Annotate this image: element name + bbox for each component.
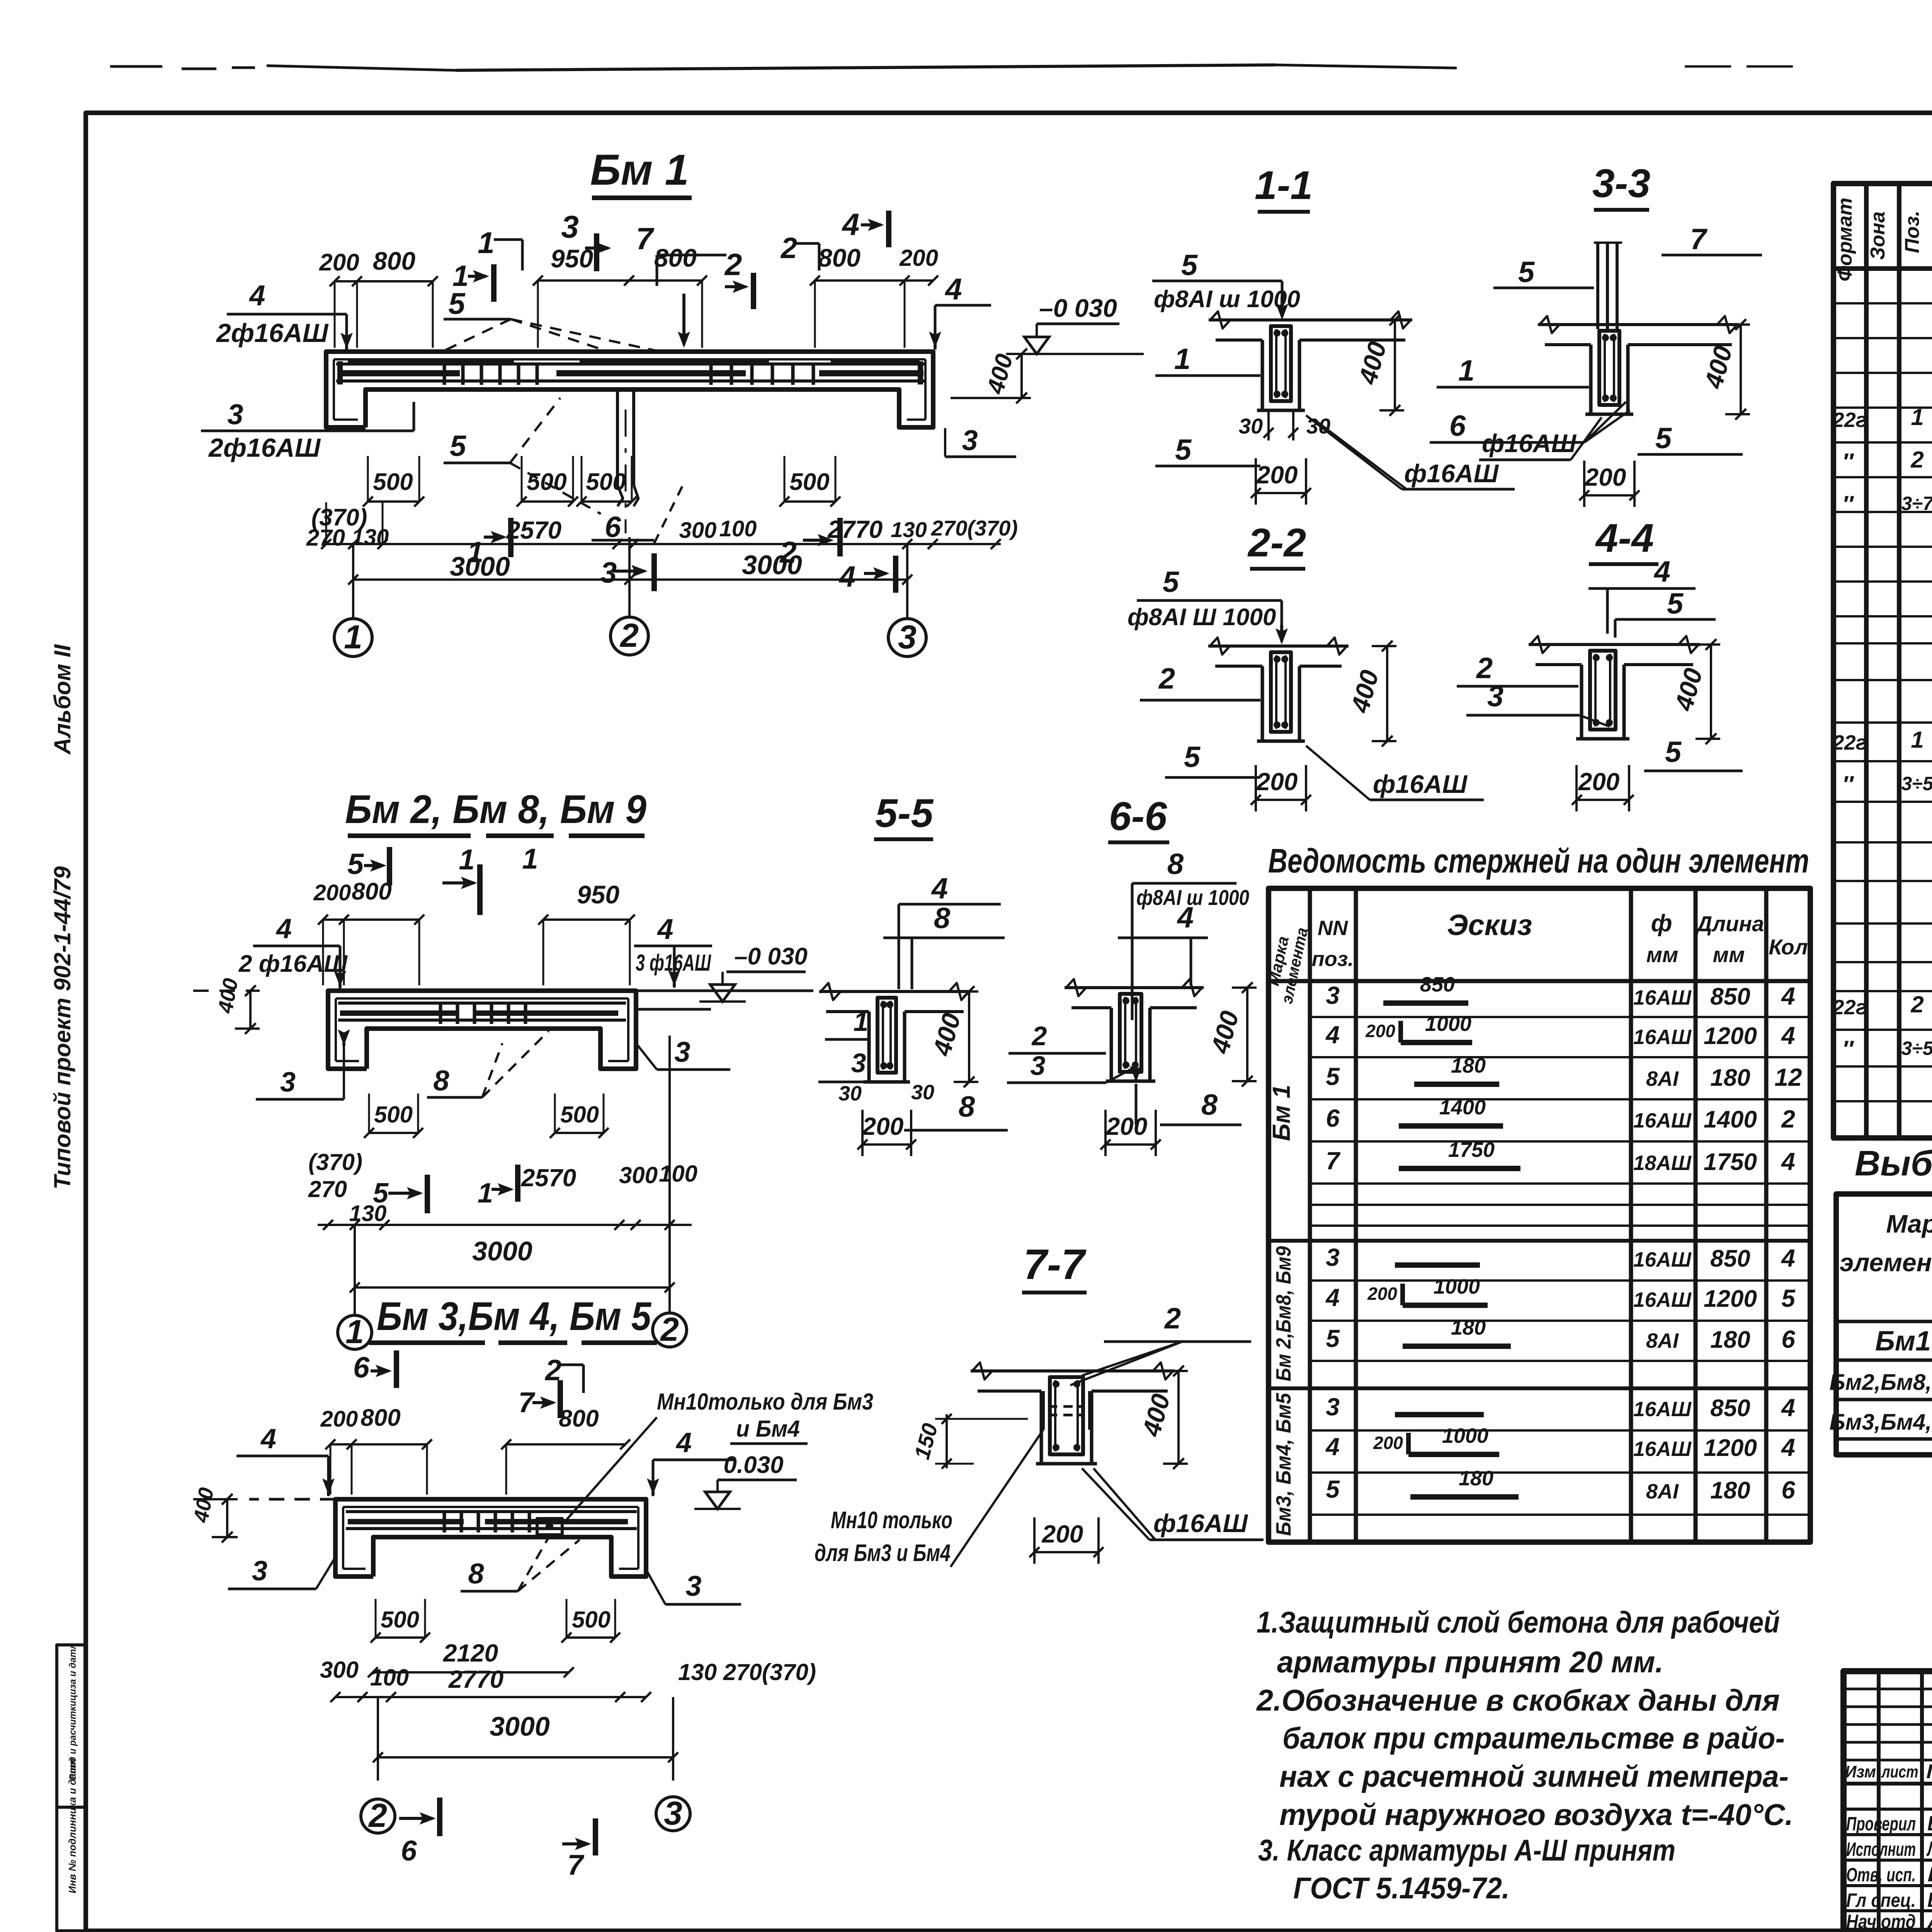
svg-text:Бм 1: Бм 1 [590, 146, 689, 194]
beam Бм3 outline [335, 1499, 646, 1577]
svg-text:2770: 2770 [827, 515, 883, 543]
svg-text:2-2: 2-2 [1247, 520, 1306, 565]
svg-text:1000: 1000 [1442, 1424, 1488, 1447]
svg-text:3: 3 [1326, 981, 1340, 1009]
svg-text:Проверил: Проверил [1846, 1813, 1916, 1835]
section 7-7 MH10 plate dashes [1048, 1405, 1085, 1408]
svg-text:3: 3 [561, 209, 579, 245]
svg-text:500: 500 [586, 469, 626, 495]
svg-text:3: 3 [280, 1067, 296, 1098]
svg-text:4: 4 [1781, 1394, 1795, 1422]
beam Бм2 outline [328, 991, 636, 1069]
svg-text:200: 200 [899, 245, 938, 271]
svg-text:200: 200 [862, 1112, 904, 1140]
svg-text:500: 500 [560, 1102, 599, 1128]
svg-text:4: 4 [931, 872, 948, 905]
svg-text:30: 30 [1239, 414, 1263, 438]
svg-text:Длина: Длина [1695, 912, 1764, 936]
svg-text:Альбом II: Альбом II [49, 644, 75, 755]
spec table row lines [1833, 302, 1932, 304]
svg-text:Бм 1: Бм 1 [1267, 1085, 1295, 1141]
svg-text:4: 4 [1325, 1433, 1340, 1461]
svg-text:7: 7 [567, 1849, 585, 1881]
vedomost header texts [1269, 979, 1810, 983]
svg-text:арматуры принят 20 мм.: арматуры принят 20 мм. [1277, 1645, 1663, 1679]
svg-text:Зона: Зона [1867, 211, 1889, 260]
section 7-7 dim 200 [1034, 1551, 1099, 1553]
svg-text:ф16АШ: ф16АШ [1373, 770, 1468, 798]
svg-text:Бм 3,Бм 4, Бм 5: Бм 3,Бм 4, Бм 5 [377, 1294, 652, 1339]
title block header row Изм/лист/№докум/Подпись/Дата [1844, 1782, 1932, 1786]
svg-text:30: 30 [838, 1082, 862, 1105]
svg-text:4: 4 [1781, 1244, 1795, 1272]
svg-text:3: 3 [252, 1556, 267, 1587]
svg-text:850: 850 [1710, 1245, 1750, 1272]
svg-text:850: 850 [1710, 983, 1750, 1010]
svg-text:100: 100 [370, 1665, 409, 1690]
svg-text:Бродская: Бродская [1927, 1812, 1932, 1835]
svg-text:ф16АШ: ф16АШ [1153, 1509, 1248, 1537]
svg-text:5: 5 [1181, 249, 1198, 282]
vedomost column lines [1308, 888, 1312, 1542]
svg-text:5: 5 [1326, 1325, 1340, 1352]
beam Бм2 lower dim line [318, 1224, 692, 1226]
svg-text:8АІ: 8АІ [1646, 1480, 1679, 1503]
svg-text:1200: 1200 [1704, 1435, 1757, 1461]
svg-text:2: 2 [619, 617, 639, 654]
svg-text:1750: 1750 [1704, 1149, 1757, 1175]
svg-text:4: 4 [1781, 1022, 1795, 1049]
svg-text:1: 1 [1911, 727, 1923, 753]
svg-text:3: 3 [1031, 1051, 1046, 1081]
svg-text:950: 950 [577, 880, 619, 909]
svg-text:Исполнит: Исполнит [1846, 1838, 1916, 1860]
svg-text:200: 200 [1106, 1112, 1148, 1140]
svg-text:16АШ: 16АШ [1633, 1398, 1692, 1421]
svg-text:Эскиз: Эскиз [1447, 909, 1532, 942]
beam Бм1 center support at grid 2 [616, 389, 619, 485]
svg-text:–0 030: –0 030 [734, 943, 808, 970]
section 7-7 drawing [971, 1369, 1175, 1372]
svg-text:Отв. исп.: Отв. исп. [1846, 1864, 1916, 1886]
svg-text:элемента: элемента [1840, 1248, 1932, 1277]
beam Бм1 lower dim line [326, 543, 1001, 545]
svg-text:Изм: Изм [1845, 1762, 1876, 1781]
svg-text:5: 5 [347, 848, 364, 881]
svg-text:8АІ: 8АІ [1646, 1067, 1679, 1090]
title block outer frame [1844, 1671, 1932, 1931]
svg-text:16АШ: 16АШ [1633, 1109, 1692, 1132]
svg-text:поз.: поз. [1312, 947, 1354, 971]
svg-text:1200: 1200 [1704, 1286, 1757, 1312]
title block left thin rows [1844, 1688, 1932, 1690]
svg-text:5-5: 5-5 [875, 791, 934, 836]
title block left columns [1877, 1671, 1881, 1931]
svg-text:3: 3 [664, 1795, 682, 1832]
beam Бм2 right slab extension line [636, 990, 813, 992]
svg-text:4: 4 [248, 279, 265, 311]
svg-text:18АШ: 18АШ [1633, 1151, 1692, 1175]
svg-text:3: 3 [1326, 1393, 1340, 1421]
vyborka table outer frame [1836, 1194, 1932, 1455]
svg-text:4: 4 [1781, 982, 1795, 1010]
svg-text:3: 3 [227, 398, 243, 430]
svg-text:16АШ: 16АШ [1633, 1248, 1692, 1271]
svg-text:270(370): 270(370) [931, 516, 1018, 540]
svg-text:ф: ф [1651, 910, 1672, 937]
svg-text:1400: 1400 [1439, 1096, 1486, 1119]
beam Бм3 left slab extension [249, 1498, 335, 1501]
svg-text:2770: 2770 [448, 1665, 503, 1693]
svg-text:6: 6 [353, 1351, 370, 1384]
svg-text:Гл спец.: Гл спец. [1846, 1889, 1916, 1911]
svg-text:балок при страительстве в р: балок при страительстве в райо- [1282, 1721, 1785, 1755]
section 3-3 dim 400 [1740, 325, 1742, 414]
svg-text:1000: 1000 [1434, 1275, 1480, 1298]
svg-text:1-1: 1-1 [1255, 163, 1313, 208]
svg-text:Бм2,Бм8,Бм9: Бм2,Бм8,Бм9 [1830, 1370, 1932, 1395]
svg-text:8АІ: 8АІ [1646, 1329, 1679, 1352]
svg-text:4: 4 [1325, 1021, 1340, 1049]
svg-text:3000: 3000 [490, 1711, 550, 1742]
svg-text:Рипд и расчиткициза и датл: Рипд и расчиткициза и датл [68, 1643, 78, 1780]
svg-text:ф16АШ: ф16АШ [1404, 459, 1499, 488]
svg-text:200: 200 [313, 880, 351, 905]
svg-text:1400: 1400 [1704, 1106, 1757, 1133]
svg-text:нах с расчетной зимней тем: нах с расчетной зимней темпера- [1279, 1759, 1789, 1793]
beam Бм1 dim 400 right [1020, 354, 1023, 398]
svg-text:5: 5 [1781, 1284, 1796, 1312]
svg-text:2570: 2570 [506, 516, 561, 544]
svg-text:200: 200 [1367, 1284, 1397, 1304]
svg-text:1: 1 [1458, 354, 1475, 387]
svg-text:8: 8 [959, 1090, 975, 1123]
svg-text:200: 200 [319, 249, 359, 276]
svg-text:″: ″ [1842, 1036, 1854, 1062]
svg-text:3: 3 [898, 619, 917, 656]
svg-text:6: 6 [1326, 1104, 1340, 1132]
svg-text:22г: 22г [1832, 408, 1867, 432]
svg-text:200: 200 [320, 1406, 358, 1432]
section 2-2 dim 200 [1256, 799, 1306, 801]
svg-text:5: 5 [1163, 566, 1180, 599]
spec table header row line [1833, 266, 1932, 271]
beam Бм1 left end hook [337, 361, 343, 384]
svg-text:2ф16АШ: 2ф16АШ [216, 318, 329, 348]
beam Бм3 grid lines and circles [377, 1697, 379, 1781]
svg-text:3: 3 [851, 1048, 866, 1078]
svg-text:4: 4 [838, 560, 855, 593]
svg-text:2ф16АШ: 2ф16АШ [208, 433, 321, 463]
svg-text:300: 300 [619, 1162, 658, 1188]
section 4-4 drawing [1529, 643, 1700, 646]
svg-text:Выборка стали на один элеме: Выборка стали на один элемент, кг. [1855, 1144, 1932, 1183]
section 2-2 dim 400 [1386, 646, 1388, 741]
svg-text:6: 6 [401, 1835, 417, 1867]
section 6-6 dim 200 [1105, 1143, 1156, 1146]
svg-text:3000: 3000 [472, 1236, 532, 1266]
svg-text:1: 1 [345, 1313, 364, 1350]
section 7-7 dim 400 [1177, 1371, 1180, 1464]
svg-text:Nºдокум: Nºдокум [1926, 1760, 1932, 1783]
svg-text:1: 1 [478, 1178, 493, 1209]
svg-text:2570: 2570 [521, 1164, 576, 1192]
svg-text:4: 4 [1781, 1434, 1795, 1461]
section 3-3 drawing [1538, 323, 1739, 326]
svg-text:4: 4 [260, 1423, 276, 1454]
svg-text:200: 200 [1585, 463, 1626, 491]
spec table outer frame [1833, 184, 1932, 1138]
svg-text:800: 800 [559, 1405, 599, 1432]
title block signature rows [1844, 1808, 1932, 1811]
svg-text:3: 3 [1326, 1243, 1340, 1271]
svg-text:180: 180 [1710, 1327, 1750, 1353]
svg-text:2: 2 [660, 1311, 679, 1348]
svg-text:Власенко: Власенко [1927, 1888, 1932, 1912]
svg-text:3. Класс арматуры А-Ш принят: 3. Класс арматуры А-Ш принят [1258, 1833, 1675, 1867]
vyborka data rows [1836, 1320, 1932, 1323]
svg-text:16АШ: 16АШ [1633, 986, 1692, 1009]
svg-text:Формат: Формат [1834, 197, 1856, 281]
svg-text:850: 850 [1710, 1395, 1750, 1422]
section 6-6 drawing [1065, 986, 1204, 989]
svg-text:6-6: 6-6 [1109, 794, 1167, 839]
svg-text:3÷5: 3÷5 [1901, 773, 1932, 794]
svg-text:1: 1 [459, 844, 474, 876]
svg-text:4: 4 [1177, 901, 1194, 934]
svg-text:мм: мм [1713, 942, 1745, 967]
svg-text:Шкляр: Шкляр [1927, 1863, 1932, 1886]
vedomost group divider Бм1/Бм2 [1269, 1239, 1810, 1243]
section 5-5 dim 400 [968, 992, 970, 1082]
section 4-4 dim 200 [1577, 799, 1629, 801]
svg-text:2: 2 [780, 232, 797, 265]
svg-text:Мн10только для Бм3: Мн10только для Бм3 [657, 1389, 873, 1415]
svg-text:ГОСТ 5.1459-72.: ГОСТ 5.1459-72. [1293, 1871, 1510, 1905]
svg-text:5: 5 [1175, 434, 1192, 466]
svg-text:8: 8 [433, 1065, 449, 1097]
svg-text:3: 3 [685, 1570, 701, 1602]
svg-text:Нач отд: Нач отд [1846, 1911, 1916, 1932]
svg-text:22г: 22г [1832, 731, 1867, 754]
svg-text:3000: 3000 [450, 551, 510, 582]
svg-text:1: 1 [1911, 404, 1923, 430]
svg-text:2: 2 [724, 247, 742, 282]
svg-text:5: 5 [1326, 1063, 1340, 1090]
svg-text:500: 500 [373, 469, 413, 495]
svg-text:1: 1 [522, 843, 538, 875]
svg-text:7: 7 [1326, 1147, 1341, 1175]
svg-text:1: 1 [854, 1007, 869, 1037]
svg-text:2: 2 [1164, 1302, 1181, 1335]
vedomost row lines [1310, 1016, 1810, 1018]
svg-text:3: 3 [962, 424, 978, 456]
section 5-5 drawing [819, 990, 971, 993]
spec table column lines [1864, 184, 1869, 1138]
svg-text:16АШ: 16АШ [1633, 1288, 1692, 1311]
svg-text:Поз.: Поз. [1901, 211, 1923, 253]
svg-text:800: 800 [361, 1405, 400, 1431]
section 7-7 dim 150 [946, 1414, 948, 1468]
svg-text:180: 180 [1451, 1316, 1486, 1339]
svg-text:12: 12 [1774, 1063, 1802, 1091]
svg-text:800: 800 [352, 878, 391, 905]
svg-text:200: 200 [1256, 461, 1298, 489]
section 5-5 dim 200 [862, 1143, 911, 1146]
svg-text:5: 5 [450, 430, 467, 463]
svg-text:Арсенов: Арсенов [1927, 1910, 1932, 1932]
svg-text:Бм1: Бм1 [1875, 1326, 1931, 1357]
svg-text:4: 4 [944, 272, 962, 306]
svg-text:22г: 22г [1832, 996, 1867, 1019]
svg-text:8: 8 [1201, 1088, 1218, 1121]
beam Бм1 grid lines and circles [352, 544, 354, 618]
svg-text:180: 180 [1451, 1054, 1486, 1077]
svg-text:3: 3 [674, 1036, 690, 1068]
beam Бм2 grid lines and circles [354, 1225, 356, 1315]
svg-text:850: 850 [1420, 973, 1455, 996]
svg-text:0.030: 0.030 [723, 1452, 783, 1478]
svg-text:130 270(370): 130 270(370) [678, 1659, 816, 1685]
beam Бм3 МН10 plate in elevation [537, 1519, 562, 1535]
svg-text:2: 2 [1910, 447, 1923, 473]
svg-text:200: 200 [1256, 768, 1298, 796]
section 3-3 dim 200 [1584, 494, 1634, 497]
svg-text:3÷7: 3÷7 [1901, 493, 1932, 514]
svg-text:8: 8 [1167, 848, 1184, 881]
svg-text:4: 4 [276, 913, 292, 944]
svg-text:3-3: 3-3 [1592, 161, 1650, 206]
vedomost group divider Бм2/Бм3 [1269, 1386, 1810, 1390]
svg-text:100: 100 [719, 516, 757, 541]
svg-text:Типовой проект 902-1-44/79: Типовой проект 902-1-44/79 [49, 866, 75, 1189]
beam Бм1 right end hook [918, 361, 923, 384]
svg-text:3: 3 [600, 556, 617, 589]
svg-text:800: 800 [373, 247, 415, 275]
svg-text:8: 8 [934, 902, 951, 935]
svg-text:7: 7 [1690, 223, 1708, 256]
svg-text:180: 180 [1459, 1467, 1493, 1490]
section 4-4 dim 400 [1710, 645, 1712, 739]
svg-text:и Бм4: и Бм4 [736, 1416, 800, 1442]
svg-text:–0 030: –0 030 [1039, 294, 1117, 322]
svg-text:2: 2 [1158, 662, 1175, 695]
svg-text:Мн10 только: Мн10 только [831, 1507, 952, 1534]
svg-text:16АШ: 16АШ [1633, 1437, 1692, 1461]
svg-text:мм: мм [1646, 942, 1679, 967]
svg-text:4: 4 [675, 1427, 692, 1458]
svg-text:лист: лист [1881, 1762, 1918, 1781]
svg-text:NN: NN [1318, 917, 1348, 940]
svg-text:2: 2 [1031, 1021, 1047, 1051]
top edge broken line [110, 65, 162, 68]
svg-text:5: 5 [1326, 1475, 1340, 1503]
svg-text:500: 500 [374, 1102, 413, 1128]
svg-text:800: 800 [654, 243, 697, 272]
svg-text:ф16АШ: ф16АШ [1482, 429, 1577, 457]
svg-text:6: 6 [605, 511, 621, 544]
svg-text:1: 1 [344, 619, 362, 656]
svg-text:1000: 1000 [1425, 1012, 1471, 1036]
beam Бм1 outline [326, 352, 933, 427]
svg-text:300: 300 [679, 518, 717, 543]
svg-text:4: 4 [1781, 1148, 1795, 1175]
svg-text:5: 5 [1518, 256, 1535, 289]
svg-text:200: 200 [1578, 768, 1620, 796]
svg-text:Бм3, Бм4, Бм5: Бм3, Бм4, Бм5 [1272, 1393, 1295, 1536]
svg-text:ф8АІ Ш 1000: ф8АІ Ш 1000 [1128, 604, 1276, 631]
svg-text:Бм 2, Бм 8, Бм 9: Бм 2, Бм 8, Бм 9 [345, 787, 646, 832]
svg-text:Бм 2,Бм8, Бм9: Бм 2,Бм8, Бм9 [1272, 1246, 1295, 1381]
section 3-3 top bars поз7 [1596, 243, 1599, 329]
svg-text:5: 5 [1665, 736, 1682, 769]
svg-text:180: 180 [1710, 1477, 1750, 1504]
svg-text:6: 6 [1781, 1325, 1795, 1353]
svg-text:3000: 3000 [742, 550, 802, 580]
svg-text:″: ″ [1842, 449, 1854, 474]
svg-text:(370): (370) [308, 1149, 362, 1175]
svg-text:16АШ: 16АШ [1633, 1026, 1692, 1049]
svg-text:Марка: Марка [1886, 1209, 1932, 1238]
svg-text:200: 200 [1365, 1021, 1395, 1041]
section 1-1 dim 200 [1256, 492, 1306, 494]
svg-text:4: 4 [1325, 1284, 1340, 1311]
svg-text:200: 200 [1042, 1520, 1083, 1548]
svg-text:2: 2 [1781, 1105, 1795, 1133]
svg-text:Ведомость стержней на один эле: Ведомость стержней на один элемент [1268, 842, 1809, 880]
svg-text:500: 500 [572, 1607, 611, 1633]
svg-text:100: 100 [659, 1161, 697, 1187]
svg-text:1200: 1200 [1704, 1023, 1757, 1049]
svg-text:5: 5 [1667, 587, 1684, 620]
svg-text:180: 180 [1710, 1065, 1750, 1091]
svg-text:1: 1 [1174, 343, 1190, 376]
section 1-1 drawing [1209, 318, 1412, 321]
svg-text:200: 200 [1373, 1433, 1403, 1453]
svg-text:500: 500 [789, 469, 829, 495]
section 6-6 dim 400 [1246, 988, 1248, 1081]
svg-text:2: 2 [368, 1797, 387, 1834]
svg-text:Литвиненко: Литвиненко [1926, 1837, 1932, 1861]
svg-text:турой наружного воздуха t=-: турой наружного воздуха t=-40°C. [1279, 1798, 1793, 1832]
section 2-2 drawing [1208, 645, 1349, 648]
svg-text:5: 5 [448, 286, 466, 320]
margin stamp box bottom left [57, 1645, 86, 1931]
svg-text:500: 500 [381, 1607, 419, 1633]
svg-text:Бм3,Бм4,Бм5: Бм3,Бм4,Бм5 [1830, 1410, 1932, 1435]
svg-text:1750: 1750 [1448, 1138, 1495, 1162]
svg-text:130: 130 [891, 517, 927, 542]
svg-text:Кол: Кол [1769, 935, 1808, 959]
svg-text:″: ″ [1842, 491, 1854, 517]
svg-text:270: 270 [308, 1176, 347, 1202]
svg-text:6: 6 [1781, 1476, 1795, 1504]
svg-text:2 ф16АШ: 2 ф16АШ [238, 951, 348, 977]
svg-text:5: 5 [373, 1178, 389, 1209]
svg-text:800: 800 [818, 243, 861, 272]
svg-text:2.Обозначение в скобках дан: 2.Обозначение в скобках даны для [1256, 1683, 1780, 1717]
svg-text:1: 1 [478, 226, 494, 260]
svg-text:500: 500 [527, 469, 566, 495]
svg-text:для Бм3 и Бм4: для Бм3 и Бм4 [815, 1540, 951, 1566]
svg-text:7: 7 [636, 221, 655, 256]
svg-text:3÷5: 3÷5 [1901, 1037, 1932, 1059]
svg-text:5: 5 [1655, 422, 1672, 455]
svg-text:3: 3 [1487, 680, 1503, 713]
section 1-1 dim 400 [1394, 320, 1396, 410]
svg-text:5: 5 [1184, 741, 1201, 774]
svg-text:4: 4 [1653, 555, 1670, 588]
